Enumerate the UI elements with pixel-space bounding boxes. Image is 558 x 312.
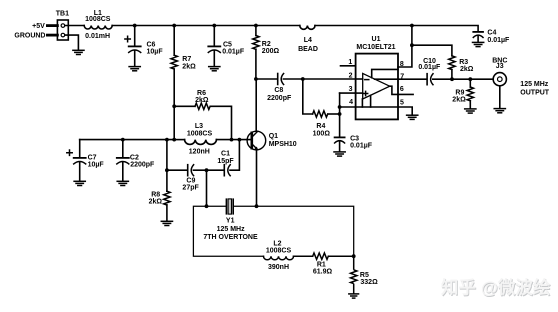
capacitor C10 [427, 74, 493, 85]
resistor R4 [313, 111, 328, 117]
op-amp U1 box [356, 54, 398, 120]
svg-text:C8: C8 [274, 87, 283, 94]
svg-text:125 MHz: 125 MHz [520, 81, 549, 88]
inductor L2 [264, 256, 294, 260]
pin 8 wire to rail [398, 26, 412, 68]
svg-text:10µF: 10µF [88, 162, 105, 169]
wire Q1 emitter [256, 150, 258, 206]
svg-text:TB1: TB1 [56, 11, 69, 18]
svg-text:R4: R4 [316, 123, 325, 130]
capacitor C8 [278, 74, 303, 85]
svg-text:C3: C3 [350, 135, 359, 142]
capacitor C7 [67, 140, 86, 181]
inductor L1 [84, 26, 112, 30]
ground at C6 [129, 67, 140, 71]
crystal Y1 [226, 198, 233, 214]
svg-text:2200pF: 2200pF [267, 95, 292, 102]
node C2 [121, 138, 125, 142]
wire pin3/pin4/C3 vertical [339, 93, 341, 137]
svg-text:知乎 @微波绘: 知乎 @微波绘 [441, 278, 551, 298]
svg-text:125 MHz: 125 MHz [217, 226, 246, 233]
ground at C5 [209, 67, 220, 71]
capacitor C9 [188, 165, 224, 176]
node R2-C8-Q1 [254, 77, 258, 81]
svg-text:R2: R2 [262, 41, 271, 48]
capacitor C5 [208, 26, 220, 67]
svg-text:Y1: Y1 [226, 217, 235, 224]
svg-text:2: 2 [349, 73, 353, 80]
svg-text:4: 4 [349, 99, 353, 106]
ground at R5 [348, 294, 359, 298]
ground at R9 [465, 109, 476, 113]
svg-text:Q1: Q1 [269, 133, 278, 140]
svg-text:R6: R6 [197, 90, 206, 97]
svg-text:C5: C5 [223, 42, 232, 49]
capacitor C4 [473, 32, 483, 42]
wire L2 to R1 [294, 255, 313, 257]
resistor R2 [253, 26, 259, 80]
terminal block TB1 [47, 20, 68, 40]
svg-text:1008CS: 1008CS [85, 16, 111, 23]
svg-text:MC10ELT21: MC10ELT21 [356, 44, 395, 51]
ground at BNC [494, 109, 505, 113]
wire pin3 stub [340, 92, 356, 94]
svg-text:L2: L2 [273, 241, 281, 248]
pin 4-5 internal wire [356, 106, 398, 108]
svg-text:2kΩ: 2kΩ [149, 199, 163, 206]
resistor R3 [449, 56, 455, 79]
svg-text:0.01µF: 0.01µF [418, 64, 441, 71]
svg-text:2kΩ: 2kΩ [452, 97, 466, 104]
svg-text:R7: R7 [182, 56, 191, 63]
ground at R8 [161, 221, 172, 225]
svg-text:C9: C9 [186, 177, 195, 184]
resistor R6 [174, 103, 231, 140]
svg-text:OUTPUT: OUTPUT [520, 89, 550, 96]
svg-text:0.01µF: 0.01µF [350, 143, 373, 150]
wire R4 to C3 node [328, 113, 339, 115]
wire pin4 stub [340, 106, 356, 108]
ground at C3 [334, 152, 345, 156]
svg-text:L3: L3 [195, 123, 203, 130]
svg-text:27pF: 27pF [182, 184, 199, 191]
node L3 R6 right [230, 138, 234, 142]
svg-text:8: 8 [400, 61, 404, 68]
svg-text:2kΩ: 2kΩ [182, 64, 196, 71]
svg-text:+5V: +5V [32, 23, 45, 30]
wire TB1 pin1 to L1 [65, 25, 84, 27]
svg-text:10µF: 10µF [147, 49, 164, 56]
svg-text:2kΩ: 2kΩ [195, 97, 209, 104]
pin 6 wire from apex [390, 86, 413, 94]
svg-text:61.9Ω: 61.9Ω [313, 269, 333, 276]
svg-text:1: 1 [348, 59, 352, 66]
wire C9 line [167, 169, 188, 171]
resistor R5 [351, 256, 357, 293]
svg-text:C2: C2 [130, 155, 139, 162]
pin 3 internal wire [356, 92, 363, 94]
wire top rail right [315, 26, 478, 32]
capacitor C1 [224, 140, 239, 176]
node output R3 [450, 77, 454, 81]
svg-text:200Ω: 200Ω [262, 48, 280, 55]
svg-text:5: 5 [400, 99, 404, 106]
wire R8 C9 vertical [166, 140, 168, 192]
svg-text:0.01µF: 0.01µF [222, 49, 245, 56]
svg-text:6: 6 [400, 86, 404, 93]
svg-text:R3: R3 [459, 59, 468, 66]
node crystal rail right [255, 204, 259, 208]
node rail R7 vertical [172, 138, 176, 142]
resistor R9 [467, 79, 473, 108]
svg-text:2200pF: 2200pF [130, 162, 155, 169]
svg-text:GROUND: GROUND [14, 33, 45, 40]
internal tap triangle top edge [372, 69, 398, 77]
svg-text:R8: R8 [151, 191, 160, 198]
svg-text:120nH: 120nH [189, 149, 210, 156]
capacitor C2 [117, 140, 129, 181]
node R3 branch [410, 43, 414, 47]
svg-text:1008CS: 1008CS [187, 131, 213, 138]
svg-text:U1: U1 [372, 36, 381, 43]
resistor R7 [171, 26, 177, 140]
resistor R1 [313, 253, 329, 259]
node R7 [172, 24, 176, 28]
svg-text:3: 3 [349, 86, 353, 93]
node rail pin8 [410, 24, 414, 28]
svg-text:2kΩ: 2kΩ [460, 66, 474, 73]
wire crystal rail right [234, 206, 354, 256]
ground at C7 [74, 181, 85, 185]
wire crystal rail left [193, 206, 263, 256]
BNC connector J3 [493, 73, 506, 109]
svg-text:100Ω: 100Ω [313, 130, 331, 137]
capacitor C3 [335, 137, 345, 151]
pin 5 stub to ground [398, 107, 412, 115]
ferrite bead L4 [300, 26, 315, 30]
capacitor C6 [125, 26, 141, 67]
wire C7 C2 rail [80, 139, 175, 141]
svg-text:R9: R9 [455, 89, 464, 96]
svg-text:J3: J3 [496, 63, 504, 70]
wire TB1 pin2 to ground [65, 35, 78, 50]
svg-text:C6: C6 [147, 42, 156, 49]
svg-text:7TH OVERTONE: 7TH OVERTONE [203, 234, 258, 241]
ground at C2 [117, 181, 128, 185]
node rail R8 branch [165, 138, 169, 142]
node C9 [165, 168, 169, 172]
pin 7 wire internal [375, 78, 398, 80]
node C8-R4 [301, 77, 305, 81]
svg-text:332Ω: 332Ω [360, 279, 378, 286]
pin 1 stub [341, 65, 356, 67]
svg-text:1008CS: 1008CS [266, 248, 292, 255]
svg-text:15pF: 15pF [217, 158, 234, 165]
node C9 C1 crystal [205, 168, 209, 172]
crystal loop thin wires [193, 206, 353, 260]
transistor Q1 [247, 131, 266, 150]
wire to R3 [412, 45, 452, 56]
node output R9 [468, 77, 472, 81]
ground at pin 5 [407, 115, 418, 119]
wire top rail [112, 25, 300, 27]
op-amp U1 triangle [363, 73, 390, 99]
node R2 [254, 24, 258, 28]
internal tap triangle bottom edge [370, 95, 372, 107]
inductor L3 [174, 140, 251, 145]
wire to pin2 [303, 78, 356, 80]
svg-text:BEAD: BEAD [298, 46, 318, 53]
node C6 [133, 24, 137, 28]
resistor R8 [164, 191, 170, 221]
node R5 [352, 254, 356, 258]
wire R1 to node [329, 255, 354, 257]
wire R4 branch down [303, 79, 313, 114]
node crystal rail left [205, 204, 209, 208]
wire node to C8 [256, 78, 278, 80]
svg-text:MPSH10: MPSH10 [269, 141, 297, 148]
wire crystal drop [206, 170, 208, 206]
node R6 left [172, 104, 176, 108]
node C5 [212, 24, 216, 28]
internal tap triangle bottom vertex [361, 99, 363, 107]
svg-text:0.01µF: 0.01µF [487, 37, 510, 44]
ground at C4 [473, 42, 484, 46]
pin 2 internal wire [356, 78, 363, 80]
svg-text:C4: C4 [487, 29, 496, 36]
svg-text:C7: C7 [88, 155, 97, 162]
svg-text:C1: C1 [221, 150, 230, 157]
wire pin7 to C10 [398, 78, 427, 80]
ground at TB1 [73, 50, 84, 54]
wire Q1 collector [255, 79, 257, 131]
svg-text:7: 7 [400, 74, 404, 81]
svg-text:L4: L4 [304, 37, 312, 44]
node pin4 [338, 105, 342, 109]
svg-text:0.01mH: 0.01mH [85, 33, 110, 40]
node R4 [338, 112, 342, 116]
node base C1 branch [238, 138, 242, 142]
svg-text:390nH: 390nH [268, 264, 289, 271]
